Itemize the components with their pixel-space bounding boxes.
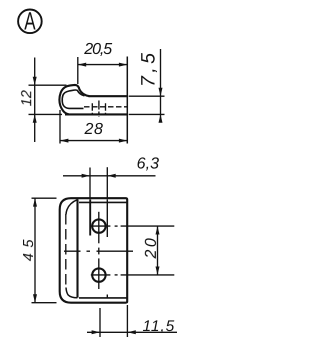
hidden hole edge right (side view) bbox=[105, 103, 107, 113]
dimension 6,3 bbox=[63, 167, 156, 197]
hole 1 horizontal centerline bbox=[91, 225, 175, 227]
svg-text:45: 45 bbox=[21, 234, 37, 261]
dimension 28 bbox=[60, 110, 127, 144]
edge line right of hole bbox=[106, 199, 108, 237]
dimension 7,5 bbox=[129, 49, 165, 122]
svg-text:12: 12 bbox=[19, 90, 35, 106]
dashed fold line bbox=[65, 214, 67, 287]
plate top edge bbox=[89, 95, 128, 97]
hidden line (dashed) under top surface bbox=[84, 106, 127, 108]
hook outer profile bbox=[59, 85, 89, 115]
plate bottom edge bbox=[65, 113, 127, 115]
dimension 20 bbox=[157, 226, 159, 275]
hole vertical centerline bbox=[98, 212, 100, 289]
hook inner curl line bbox=[62, 90, 84, 108]
outline bbox=[60, 198, 128, 303]
edge line right of hole lower stub bbox=[106, 295, 108, 298]
hole 2 horizontal centerline bbox=[91, 274, 175, 276]
fold curve top bbox=[66, 199, 78, 214]
svg-text:6,3: 6,3 bbox=[137, 156, 160, 173]
inner bottom line bbox=[79, 297, 127, 299]
svg-text:20,5: 20,5 bbox=[83, 41, 112, 58]
hole 1 bbox=[92, 219, 105, 232]
hidden hole edge left (side view) bbox=[91, 103, 93, 113]
svg-text:11,5: 11,5 bbox=[142, 318, 175, 335]
svg-text:7,5: 7,5 bbox=[138, 50, 160, 87]
inner top line bbox=[79, 201, 127, 203]
middle centerline bbox=[64, 250, 133, 252]
lip edge line bbox=[76, 199, 78, 297]
dimension 45 bbox=[32, 198, 57, 303]
hole centerline (side view) bbox=[98, 101, 100, 117]
svg-text:20: 20 bbox=[143, 236, 160, 260]
dimension 12 bbox=[29, 58, 67, 143]
curl end edge line bbox=[89, 199, 91, 235]
dimension 11,5 bbox=[87, 305, 177, 337]
plate right end edge (also extension for 20,5 and 28) bbox=[126, 57, 128, 144]
svg-text:A: A bbox=[24, 8, 36, 36]
hole 2 bbox=[92, 268, 105, 281]
view label circle A bbox=[18, 9, 42, 33]
dimension 20,5 bbox=[78, 57, 128, 84]
svg-text:28: 28 bbox=[83, 121, 103, 138]
fold curve bottom bbox=[66, 288, 77, 298]
